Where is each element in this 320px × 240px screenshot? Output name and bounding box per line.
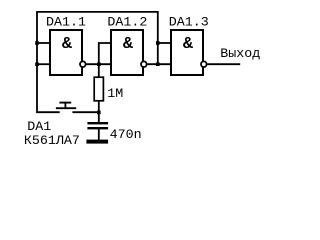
- svg-text:DA1.3: DA1.3: [169, 15, 209, 30]
- node junction feedback / DA1.3 upper input: [156, 41, 160, 45]
- ground bar: [86, 140, 108, 144]
- node inversion bubble DA1.2 output: [141, 61, 147, 67]
- wire DA1.1 lower input stub: [37, 63, 50, 65]
- node junction switch / capacitor: [97, 111, 101, 115]
- node junction DA1.1 output / resistor: [97, 62, 101, 66]
- node inversion bubble DA1.1 output: [80, 61, 86, 67]
- node junction at DA1.1 upper input: [35, 41, 39, 45]
- switch SB1 bridge bar: [56, 107, 76, 109]
- wire DA1.1 output up to DA1.2 upper input: [99, 43, 111, 78]
- wire feedback loop: left vertical, top horizontal, right vertical: [37, 12, 158, 112]
- wire DA1.1 output to DA1.2 lower input: [86, 63, 111, 65]
- capacitor C1 bottom plate: [87, 127, 108, 129]
- svg-text:&: &: [62, 35, 72, 54]
- node junction at DA1.1 lower input: [35, 62, 39, 66]
- wire switch right contact: [72, 111, 99, 113]
- node inversion bubble DA1.3 output: [201, 61, 207, 67]
- svg-text:DA1.2: DA1.2: [107, 15, 147, 30]
- svg-text:К561ЛА7: К561ЛА7: [24, 133, 80, 148]
- svg-text:DA1.1: DA1.1: [46, 15, 86, 30]
- op-amp U1 gate DA1.1 box: [50, 30, 82, 75]
- svg-text:&: &: [183, 35, 193, 54]
- op-amp U2 gate DA1.2 box: [111, 30, 143, 75]
- capacitor C1 top plate: [87, 122, 108, 124]
- svg-text:&: &: [123, 35, 133, 54]
- wire DA1.3 upper input stub: [158, 42, 171, 44]
- switch SB1 stem: [64, 103, 66, 108]
- node junction feedback / DA1.3 lower input: [156, 62, 160, 66]
- svg-text:DA1: DA1: [27, 119, 51, 134]
- wire resistor to capacitor: [98, 101, 100, 123]
- wire DA1.1 upper input stub: [37, 42, 50, 44]
- switch SB1 cap bar: [59, 102, 71, 104]
- resistor R1 body: [94, 77, 103, 101]
- wire DA1.2 output to DA1.3 lower input: [147, 63, 171, 65]
- svg-text:470n: 470n: [110, 127, 142, 142]
- svg-text:Выход: Выход: [220, 46, 260, 61]
- wire output to Vyhod: [207, 63, 240, 65]
- wire capacitor to ground: [98, 129, 100, 140]
- op-amp U3 gate DA1.3 box: [171, 30, 203, 75]
- svg-text:1M: 1M: [107, 86, 123, 101]
